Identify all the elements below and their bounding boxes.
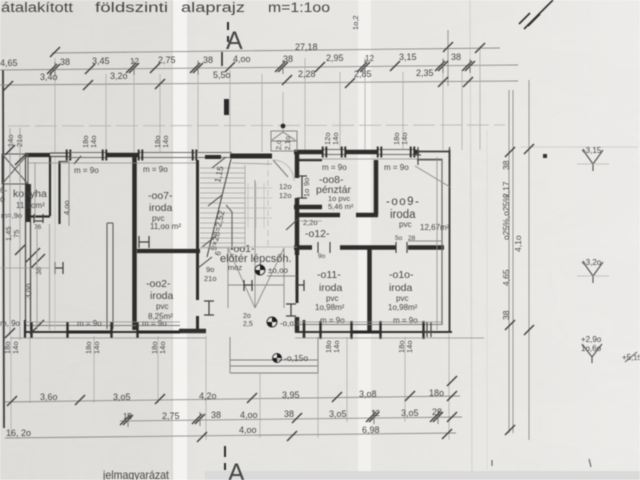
right chain verticals <box>509 80 529 440</box>
svg-text:-oo7-: -oo7- <box>148 190 173 202</box>
svg-text:3,2o: 3,2o <box>110 71 128 81</box>
top dimension chain lines <box>0 30 518 86</box>
svg-text:38: 38 <box>211 410 221 420</box>
entry porch rect <box>271 131 297 151</box>
bottom wall dark seg o11/o1o <box>352 331 380 334</box>
hall direction V lines <box>228 180 284 308</box>
svg-text:14o: 14o <box>400 132 409 145</box>
svg-text:pvc: pvc <box>396 294 408 303</box>
section tick mid <box>224 99 229 115</box>
svg-text:1o,6o: 1o,6o <box>581 344 602 353</box>
elevation marker +3,15 <box>577 150 609 171</box>
svg-text:9o: 9o <box>318 253 326 260</box>
svg-text:4,oo: 4,oo <box>233 54 251 64</box>
svg-text:1o,98m²: 1o,98m² <box>315 303 345 312</box>
konyha lower verticals <box>37 224 50 330</box>
svg-text:11,oo m²: 11,oo m² <box>150 222 181 231</box>
svg-text:földszinti: földszinti <box>95 0 168 15</box>
left chain ticks <box>5 145 25 338</box>
svg-text:18o: 18o <box>429 388 444 398</box>
top wall right section seg1 <box>294 150 323 155</box>
svg-text:38: 38 <box>284 409 294 419</box>
top wall seg3 to corner <box>414 150 419 155</box>
bottom scan edge gray <box>205 471 640 480</box>
stair arrow diagonal <box>207 159 231 257</box>
svg-text:4,2o: 4,2o <box>199 391 217 401</box>
mid wall oo9/o10 <box>340 245 396 250</box>
svg-text:12: 12 <box>371 409 380 418</box>
svg-text:pvc: pvc <box>156 302 168 311</box>
door jamb marks on x134 wall <box>139 236 149 248</box>
svg-text:16, 2o: 16, 2o <box>6 428 31 438</box>
svg-text:3,6o: 3,6o <box>40 392 58 402</box>
svg-text:+3,2o: +3,2o <box>581 258 602 267</box>
svg-text:6-: 6- <box>0 186 7 195</box>
svg-text:14o: 14o <box>92 341 101 354</box>
row C texts <box>6 425 380 438</box>
svg-text:14o: 14o <box>331 132 340 145</box>
svg-text:+3,15: +3,15 <box>581 146 602 155</box>
svg-text:2,1o: 2,1o <box>285 136 292 150</box>
corridor double wall lines <box>107 223 113 329</box>
svg-text:2,75: 2,75 <box>158 55 176 65</box>
svg-text:3,15: 3,15 <box>399 52 417 62</box>
top wall thick seg 106-139 <box>106 153 139 158</box>
row A ticks <box>7 391 457 406</box>
o11/o10 divider wall <box>367 248 372 331</box>
hall east wall <box>295 150 300 178</box>
svg-text:m = 9o: m = 9o <box>74 166 99 175</box>
row C ticks <box>197 429 452 442</box>
svg-text:m = 9o: m = 9o <box>384 163 409 172</box>
svg-text:2,75: 2,75 <box>162 411 180 421</box>
svg-text:1o,98m²: 1o,98m² <box>388 303 418 312</box>
left dim line y268 <box>0 267 50 269</box>
svg-text:3,95: 3,95 <box>282 390 300 400</box>
elevation marker +2,9o / 1o,6o <box>582 344 602 363</box>
above-wall rotated texts top <box>6 15 409 148</box>
bottom right small marks <box>491 460 493 466</box>
oo8 divider slash <box>286 218 299 230</box>
level dot on axis <box>281 124 286 129</box>
left outer wall double line <box>26 155 31 332</box>
fold band 1 <box>173 0 187 480</box>
svg-text:4,1o: 4,1o <box>513 235 523 252</box>
window oo8 <box>323 150 345 155</box>
svg-text:2,85: 2,85 <box>354 69 372 79</box>
oo8 inner north wall <box>299 159 322 162</box>
canopy dashed line across <box>8 125 505 126</box>
konyha right wall 1 <box>49 156 51 216</box>
svg-text:m = 9o: m = 9o <box>393 316 418 325</box>
svg-text:14o: 14o <box>161 135 170 148</box>
svg-text:-oo9-: -oo9- <box>386 196 420 208</box>
hall door jamb center <box>244 280 252 291</box>
svg-text:38: 38 <box>501 310 511 320</box>
dim line row2 <box>0 65 518 70</box>
top dim row3 texts <box>40 68 434 82</box>
crease line right <box>470 0 472 480</box>
level marker lower <box>267 317 277 327</box>
svg-text:75: 75 <box>12 230 21 238</box>
stair treads <box>200 165 245 250</box>
hall dashed axis vertical <box>267 160 269 250</box>
svg-text:4,oo: 4,oo <box>62 200 71 215</box>
svg-text:2,2o: 2,2o <box>303 218 318 227</box>
corner ticks bottom-right <box>423 322 434 337</box>
svg-text:9o: 9o <box>206 265 214 274</box>
axis line hall horiz <box>200 246 297 248</box>
svg-text:iroda: iroda <box>319 282 343 294</box>
corner ticks top-right <box>414 147 450 165</box>
title text <box>1 0 330 15</box>
window o11-s caps <box>321 321 352 339</box>
top wall seg2 <box>345 150 378 155</box>
svg-text:m = 9o: m = 9o <box>322 163 347 172</box>
east outer wall double line <box>449 150 451 332</box>
svg-text:konyha: konyha <box>13 188 47 200</box>
svg-text:14o: 14o <box>158 341 167 354</box>
level marker hall <box>255 265 265 275</box>
top dim row2 texts <box>0 52 461 68</box>
svg-text:38: 38 <box>501 160 511 170</box>
bottom wall right section inner <box>297 324 442 326</box>
svg-text:iroda: iroda <box>150 290 174 302</box>
svg-text:m = 9o: m = 9o <box>320 316 345 325</box>
window oo2-s caps <box>112 322 138 338</box>
svg-text:+2,9o: +2,9o <box>581 335 602 344</box>
svg-text:iroda: iroda <box>149 202 173 214</box>
svg-text:21o: 21o <box>204 274 217 283</box>
dim line 27,18 <box>52 48 500 53</box>
svg-text:iroda: iroda <box>389 282 413 294</box>
konyha second wall <box>58 161 60 224</box>
hall west wall <box>196 160 199 300</box>
svg-text:3,o5: 3,o5 <box>401 408 419 418</box>
connector verticals <box>11 334 449 440</box>
svg-text:12o: 12o <box>279 191 292 200</box>
svg-text:-o11-: -o11- <box>317 269 341 281</box>
top wall hall thin + block <box>196 153 232 158</box>
svg-text:o25%,o25%: o25%,o25% <box>501 194 511 240</box>
stair flight edge corner <box>226 205 232 250</box>
svg-text:76: 76 <box>34 224 42 231</box>
o12 north wall <box>294 205 322 210</box>
row A texts <box>40 388 444 402</box>
svg-text:1o: 1o <box>302 189 311 197</box>
right end vertical connector <box>447 30 449 86</box>
svg-text:3,o5: 3,o5 <box>329 409 347 419</box>
svg-text:moz: moz <box>228 263 242 272</box>
hall landing faint grid <box>245 183 272 228</box>
section marker A bottom <box>224 446 226 470</box>
2,24 dim line o12 <box>300 220 322 222</box>
svg-text:2,o: 2,o <box>276 140 283 150</box>
svg-text:14o: 14o <box>89 135 98 148</box>
left page edge dark line <box>3 70 4 428</box>
svg-text:21o: 21o <box>15 134 24 147</box>
oo9 diagonal <box>415 166 450 187</box>
svg-text:m=,9o: m=,9o <box>1 211 22 220</box>
svg-text:m = 9o: m = 9o <box>143 165 168 174</box>
svg-text:alaprajz: alaprajz <box>181 0 245 15</box>
faint right horizontal <box>520 146 638 148</box>
svg-text:5,5o: 5,5o <box>213 70 231 80</box>
oo8 south wall <box>299 213 340 218</box>
row B ticks <box>120 376 457 427</box>
konyha south wall + door <box>28 215 50 217</box>
svg-text:jelmagyarázat: jelmagyarázat <box>102 468 169 480</box>
svg-text:2,28: 2,28 <box>298 69 316 79</box>
svg-text:9o: 9o <box>302 178 311 186</box>
27,18 end ticks <box>50 47 60 57</box>
hall bottom-left corner <box>179 329 206 334</box>
o12 door marks <box>318 242 330 253</box>
svg-text:-o,o2: -o,o2 <box>280 319 299 328</box>
main interior wall x134 <box>132 157 137 330</box>
svg-text:2,35: 2,35 <box>416 68 434 78</box>
oo8 door jamb <box>297 176 307 198</box>
svg-text:m = 9o: m = 9o <box>142 319 167 328</box>
o12 south wall <box>294 245 312 250</box>
bottom wall dark seg 2 <box>68 331 111 334</box>
top wall window konyha-room <box>70 153 106 158</box>
small black dot near 545,156 <box>543 154 547 158</box>
left corner cap <box>24 320 26 338</box>
svg-text:3,o8: 3,o8 <box>359 389 377 399</box>
extension verticals above plan <box>55 46 480 152</box>
svg-text:-o12-: -o12- <box>305 228 330 240</box>
row2 tick marks <box>47 59 475 76</box>
svg-text:-o,15o: -o,15o <box>284 353 308 363</box>
right chain rotated texts <box>501 160 523 320</box>
mid wall door small marks <box>396 242 407 253</box>
svg-text:1o,2: 1o,2 <box>351 15 360 30</box>
svg-text:27,18: 27,18 <box>295 42 318 52</box>
axis line konyha vert <box>54 157 56 330</box>
fold band 2 <box>358 0 371 480</box>
bottom wall inner line left wing <box>24 325 180 327</box>
svg-text:2,95: 2,95 <box>326 53 344 63</box>
svg-text:38: 38 <box>60 57 70 67</box>
row B line <box>120 417 462 421</box>
svg-text:átalakított: átalakított <box>1 0 73 15</box>
svg-text:12,67m²: 12,67m² <box>420 223 450 232</box>
svg-text:4,oo: 4,oo <box>240 410 258 420</box>
svg-text:38: 38 <box>203 55 213 65</box>
svg-text:m = 9o: m = 9o <box>77 319 102 328</box>
hall-east wall bottom cap <box>303 320 306 338</box>
row B texts <box>123 407 442 421</box>
section marker A top <box>222 22 228 66</box>
svg-text:28: 28 <box>408 235 416 242</box>
door jambs hall west <box>204 301 214 315</box>
svg-text:5o: 5o <box>395 235 403 242</box>
svg-text:38: 38 <box>451 52 461 62</box>
entry door swing <box>273 160 288 177</box>
window oo9 <box>378 150 414 155</box>
svg-text:14o: 14o <box>405 340 414 353</box>
elevation marker +3,2o <box>577 262 609 283</box>
svg-text:-oo2-: -oo2- <box>146 278 171 290</box>
row A line <box>5 396 460 402</box>
svg-text:2o: 2o <box>243 313 251 320</box>
svg-text:4,oo: 4,oo <box>239 425 257 435</box>
row C line <box>5 433 456 438</box>
mid wall to east double <box>408 240 442 242</box>
svg-text:pvc: pvc <box>399 220 411 229</box>
svg-text:pvc: pvc <box>326 294 338 303</box>
svg-text:12o: 12o <box>279 182 292 191</box>
row3 tick marks <box>3 75 473 91</box>
door jambs hall east <box>286 304 296 316</box>
svg-text:±o,oo: ±o,oo <box>268 266 289 275</box>
oo8 east wall <box>374 160 379 215</box>
level marker steps <box>273 354 282 363</box>
window konyha-s caps <box>32 322 68 338</box>
oo7/oo2 divider wall <box>137 249 200 253</box>
svg-text:4,65: 4,65 <box>501 269 511 286</box>
svg-text:-o1o-: -o1o- <box>389 269 414 281</box>
window o10-s caps <box>381 321 424 339</box>
right chain ticks <box>505 144 534 435</box>
svg-text:4,65: 4,65 <box>0 58 18 68</box>
svg-text:m=1:1oo: m=1:1oo <box>268 0 330 15</box>
left wall thick segment below window <box>26 184 31 222</box>
svg-text:6,98: 6,98 <box>362 425 380 435</box>
bottom wall right section outer <box>295 331 452 333</box>
left door slashes <box>26 248 45 268</box>
svg-text:14o: 14o <box>6 134 15 147</box>
svg-text:14o: 14o <box>332 340 341 353</box>
svg-text:3,o5: 3,o5 <box>113 392 131 402</box>
top right roof diagonal <box>519 0 553 29</box>
small door ticks konyha <box>55 262 63 274</box>
svg-text:A: A <box>228 459 245 480</box>
left bay window X <box>2 154 28 184</box>
top wall window oo7 <box>139 153 196 158</box>
svg-text:5,46 m²: 5,46 m² <box>328 202 354 211</box>
bottom wall outer line left wing <box>24 331 206 333</box>
bottom wall dark seg 3 <box>138 331 180 334</box>
m=9o labels row <box>0 163 418 328</box>
top wall thick seg kitchen <box>25 153 50 157</box>
svg-text:14o: 14o <box>11 341 20 354</box>
top wall thick seg 230-272 <box>230 154 272 159</box>
svg-text:2,5: 2,5 <box>243 321 253 328</box>
dim line row3 <box>0 81 518 85</box>
svg-text:ó: ó <box>0 194 5 204</box>
svg-text:3,oo: 3,oo <box>24 283 33 299</box>
